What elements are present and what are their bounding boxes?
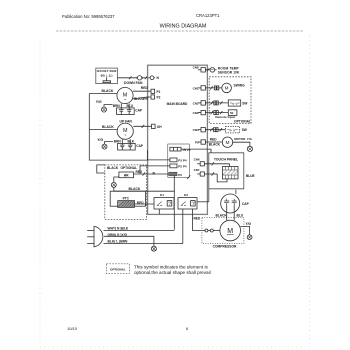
- svg-text:Y/G: Y/G: [96, 100, 102, 104]
- connector P5 motor row: [201, 140, 205, 144]
- svg-text:OPTIONAL: OPTIONAL: [234, 119, 251, 123]
- svg-text:M: M: [225, 86, 229, 91]
- temp sensor TH: [210, 68, 215, 73]
- svg-text:OPTIONAL: OPTIONAL: [110, 267, 126, 271]
- svg-text:WHT( N )BLK: WHT( N )BLK: [108, 226, 129, 230]
- svg-text:P5: P5: [195, 140, 199, 144]
- svg-text:CN1: CN1: [193, 86, 199, 90]
- wire GRN ground from plug: [104, 236, 154, 246]
- crimp slash on power wire: [129, 76, 132, 79]
- overload protector OL contacts: [205, 229, 208, 232]
- run capacitor CAP3: [221, 194, 240, 213]
- svg-text:Remote Input: Remote Input: [215, 115, 235, 119]
- svg-text:BLU: BLU: [127, 104, 134, 108]
- svg-text:BLACK: BLACK: [129, 187, 141, 191]
- wire ground G1 stub: [104, 105, 113, 108]
- wire BLACK bus to motor M1: [89, 93, 117, 95]
- compressor dotted box: [202, 218, 244, 244]
- svg-text:BLACK: BLACK: [102, 125, 114, 129]
- fan motor M1 (DOWN FAN): [117, 87, 133, 103]
- svg-text:BLK( L )BRN: BLK( L )BRN: [108, 240, 129, 244]
- svg-text:SW: SW: [242, 101, 247, 105]
- svg-text:CN3: CN3: [193, 111, 199, 115]
- PTC heater element: [118, 201, 135, 208]
- wire CN7 under display connector: [217, 174, 227, 182]
- wire WHT(N) from plug: [104, 230, 175, 232]
- svg-text:RED: RED: [210, 138, 217, 142]
- svg-text:SENSOR 10K: SENSOR 10K: [218, 71, 240, 75]
- wire fan box to connector P3 P4: [147, 159, 170, 161]
- plug prong 2: [87, 236, 94, 238]
- crimp slash on OH wire: [142, 125, 145, 128]
- svg-text:BLK/WHT: BLK/WHT: [134, 97, 149, 101]
- swing motor M3: [222, 83, 232, 93]
- svg-text:Y/G: Y/G: [247, 137, 253, 141]
- crimp slashes CN3 wire: [211, 111, 213, 114]
- wire touch panel tail into board: [197, 201, 209, 203]
- touch panel box: [209, 153, 244, 202]
- optional accessories dashed box: [209, 77, 251, 124]
- svg-text:BLUE: BLUE: [246, 174, 255, 178]
- wire cap right terminal down: [233, 205, 235, 220]
- wire PTC to relay RY1: [135, 203, 155, 205]
- page dotted border bottom: [40, 346, 310, 348]
- relay K2: [178, 198, 197, 209]
- ground symbol G3 plug: [151, 246, 156, 251]
- power plug symbol inside spec box: [103, 77, 111, 82]
- wire ground G2 stub: [105, 142, 113, 145]
- svg-text:BLACK: BLACK: [209, 142, 221, 146]
- heater element HR: [119, 172, 134, 178]
- compressor motor: [220, 220, 241, 241]
- wire relay K2 out to compressor feed: [193, 209, 206, 231]
- svg-text:CN4: CN4: [193, 128, 199, 132]
- svg-text:Y/G: Y/G: [246, 222, 252, 226]
- connector tab on heater box: [97, 165, 105, 173]
- page dotted border left: [39, 36, 41, 347]
- connector strip P6 on board: [170, 147, 181, 151]
- wire BLACK heater return: [114, 191, 175, 230]
- connector CN2 row: [201, 101, 205, 105]
- svg-text:115VOLT 60HZ: 115VOLT 60HZ: [96, 69, 116, 73]
- optional switch SW2 dashed: [225, 127, 239, 133]
- ground symbol G4 compressor: [247, 235, 252, 240]
- svg-text:BRN: BRN: [113, 104, 121, 108]
- header dashed rule: [56, 30, 304, 32]
- svg-text:CAP: CAP: [242, 202, 250, 206]
- wire relay K1 down: [158, 209, 160, 214]
- thermal fuse F1: [137, 76, 141, 80]
- svg-text:SWING: SWING: [234, 83, 246, 87]
- connector CN4 optional switch row: [201, 128, 205, 132]
- svg-text:BLK: BLK: [128, 139, 135, 143]
- svg-text:(N) ⊥ (L): (N) ⊥ (L): [101, 74, 113, 78]
- PTC heater enclosure: [110, 191, 145, 206]
- svg-text:SW: SW: [242, 128, 247, 132]
- thermostat TH1: [111, 182, 116, 187]
- connector OH on board left edge: [152, 124, 156, 128]
- capacitor block CAP2 for M2: [118, 143, 136, 150]
- svg-text:optional,the actual shape shal: optional,the actual shape shall prevail: [134, 270, 211, 275]
- power supply spec box: [96, 68, 118, 84]
- step motor M4: [222, 137, 232, 147]
- svg-text:CN6: CN6: [194, 158, 200, 162]
- wire CN8 to sensor: [205, 69, 210, 71]
- ground symbol G2: [102, 144, 107, 149]
- svg-text:P3 P4: P3 P4: [178, 164, 187, 168]
- svg-text:BLU: BLU: [237, 213, 244, 217]
- plug prong 1: [87, 230, 94, 232]
- svg-text:N: N: [153, 171, 156, 175]
- wire relay K2 down to BLK plug line: [182, 209, 184, 240]
- wire BLACK bus to motor M2: [89, 129, 117, 131]
- wire M2 to board connector OH: [133, 125, 151, 127]
- wire BLK up joint: [182, 240, 184, 243]
- wire HR to board connector P2: [134, 173, 169, 175]
- connector P2 hatched on board: [169, 172, 177, 176]
- wire P5 to step motor: [205, 141, 222, 143]
- connector pair swing: [214, 86, 216, 90]
- svg-text:P2: P2: [157, 96, 161, 100]
- crimp slash CN1 wire: [210, 86, 212, 89]
- capacitor block CAP1 for M1: [117, 108, 135, 115]
- svg-text:RED: RED: [141, 86, 149, 90]
- svg-text:GRN( G )Y/G: GRN( G )Y/G: [108, 233, 128, 237]
- connector CN6 display wire: [200, 162, 204, 166]
- wire M1 BLK/WHT to board connector P2: [132, 97, 151, 99]
- power cord plug: [94, 226, 103, 246]
- wire BLK(L) from plug: [104, 243, 183, 245]
- wire CN3 to remote input: [205, 112, 228, 114]
- fan motor M2 (UP FAN): [117, 123, 133, 139]
- wire overload to compressor: [213, 230, 220, 232]
- svg-text:PTC: PTC: [123, 197, 130, 201]
- svg-text:RED: RED: [136, 170, 143, 174]
- svg-text:CAP: CAP: [135, 108, 143, 112]
- wire M4 to ground: [233, 142, 250, 146]
- wire CN1 to swing motor: [205, 87, 221, 89]
- svg-text:P6 P6: P6 P6: [183, 148, 191, 152]
- page dotted border right: [309, 36, 311, 347]
- switch box SW1: [228, 100, 240, 106]
- svg-text:WIRING DIAGRAM: WIRING DIAGRAM: [160, 24, 207, 30]
- remote input box: [228, 110, 237, 116]
- wire M1 RED to board connector P1: [133, 90, 151, 92]
- relay K1: [154, 198, 174, 209]
- ground symbol G5: [247, 146, 252, 151]
- svg-text:P1: P1: [157, 90, 161, 94]
- svg-text:CN8: CN8: [193, 66, 199, 70]
- svg-text:CAP: CAP: [136, 144, 144, 148]
- wire CN4 to optional switch: [205, 129, 225, 131]
- connector CN1 swing row: [201, 86, 205, 90]
- connector P1 on board left edge: [151, 89, 155, 93]
- svg-text:Publication No: 5995576237: Publication No: 5995576237: [62, 14, 115, 19]
- fan enclosure box: [89, 94, 147, 161]
- svg-text:BLACK: BLACK: [216, 213, 228, 217]
- wire strip P6 to touch panel: [181, 149, 211, 153]
- crimp slash on housing corner: [187, 175, 190, 178]
- svg-text:MOTOR: MOTOR: [234, 137, 246, 141]
- svg-text:RED: RED: [137, 201, 144, 205]
- connector P3 P4 lower on board: [170, 164, 177, 168]
- svg-text:RED: RED: [194, 217, 201, 221]
- svg-text:CN2: CN2: [193, 101, 199, 105]
- svg-text:Y/G: Y/G: [97, 138, 103, 142]
- wire CN2 to switch: [205, 102, 228, 104]
- wire thermostat to black line: [113, 187, 115, 191]
- connector N on board left edge: [150, 76, 154, 80]
- wire power box to fuse: [117, 77, 137, 79]
- crimp slash on HR wire: [143, 172, 146, 175]
- connector P2 on board left edge: [151, 95, 155, 99]
- connector pair CN4: [214, 128, 216, 132]
- svg-text:DOWN FAN: DOWN FAN: [124, 81, 143, 85]
- svg-text:UP FAN: UP FAN: [120, 119, 133, 123]
- svg-text:P3 P4: P3 P4: [178, 158, 187, 162]
- svg-text:M: M: [226, 140, 230, 146]
- svg-text:MAIN BOARD: MAIN BOARD: [167, 102, 188, 106]
- wire touch panel to cap top: [235, 190, 237, 194]
- svg-text:K1: K1: [160, 193, 164, 197]
- crimp slashes CN4 wire: [210, 128, 212, 131]
- svg-text:CN7: CN7: [194, 168, 200, 172]
- MAIN BOARD outline: [148, 65, 208, 214]
- svg-text:10/10: 10/10: [67, 326, 78, 331]
- svg-text:P2: P2: [178, 173, 182, 177]
- svg-text:BRN: BRN: [114, 139, 122, 143]
- svg-text:HR: HR: [124, 174, 129, 178]
- svg-text:OH: OH: [157, 125, 162, 129]
- wire P2 down to N line: [173, 176, 175, 191]
- connector P3 P4 upper on board: [170, 158, 177, 162]
- svg-text:COMPRESSOR: COMPRESSOR: [213, 245, 237, 249]
- crimp slashes CN2 wire: [211, 101, 213, 104]
- wire thermostat to HR: [114, 177, 119, 182]
- legend optional dashed box: [106, 264, 129, 274]
- svg-text:K2: K2: [184, 193, 188, 197]
- svg-text:TOUCH PANEL: TOUCH PANEL: [214, 158, 238, 162]
- svg-text:BLACK: BLACK: [107, 166, 119, 170]
- ground symbol G1: [102, 107, 107, 112]
- plug prong 3: [87, 243, 94, 245]
- wire compressor to ground: [240, 226, 249, 234]
- svg-text:CRA123PT1: CRA123PT1: [196, 13, 220, 18]
- connector CN3 remote row: [201, 110, 205, 114]
- connector housing box on board: [168, 144, 190, 177]
- wire fuse to board connector N: [142, 77, 151, 79]
- connector pair CN3: [214, 111, 216, 115]
- connector pair CN2: [214, 101, 216, 105]
- optional heater dashed box: [105, 165, 147, 220]
- wire cap left terminal down: [226, 205, 228, 220]
- svg-text:M: M: [227, 228, 233, 235]
- display connector grid: [222, 167, 238, 179]
- svg-text:BLACK: BLACK: [102, 89, 114, 93]
- connector CN7 display wire: [200, 172, 204, 176]
- svg-text:This symbol indicates the elem: This symbol indicates the element is: [134, 265, 208, 270]
- connector CN8 sensor row: [201, 68, 205, 72]
- wire HR upper to board connector P3: [140, 166, 170, 174]
